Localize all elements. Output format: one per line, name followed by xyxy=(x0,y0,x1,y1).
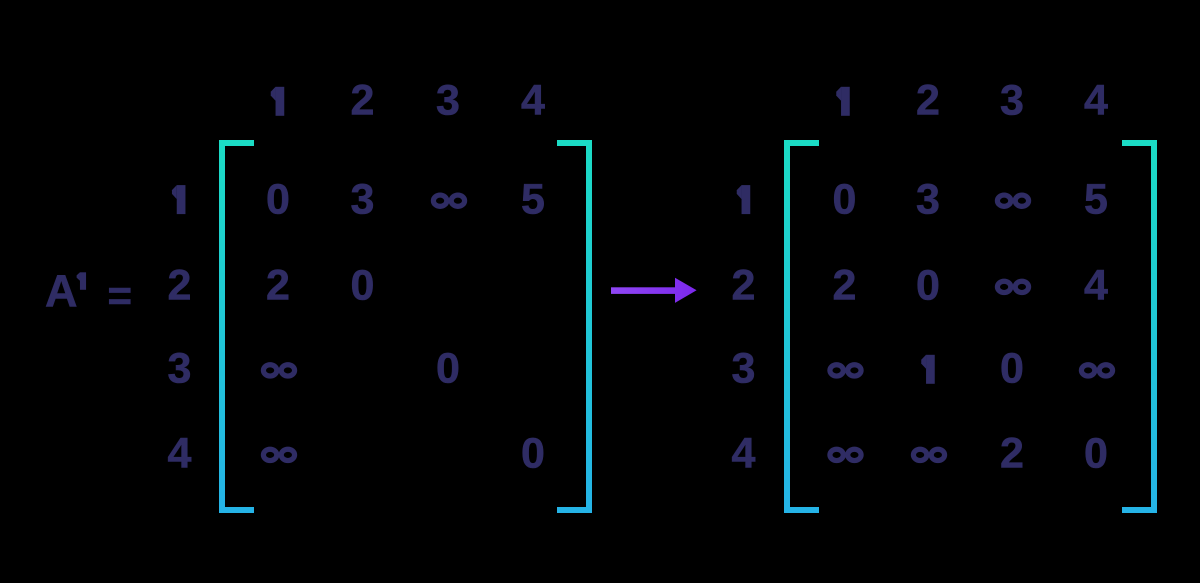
right matrix cell r4c1 value infinity xyxy=(830,449,861,460)
left matrix column header 2 value 2 xyxy=(351,80,375,123)
right matrix cell r4c4 value 0 xyxy=(1084,432,1108,475)
left matrix row label 3 value 3 xyxy=(168,348,192,391)
left matrix cell r1c4 value 5 xyxy=(521,178,545,221)
right matrix column header 3 value 3 xyxy=(1000,80,1024,123)
left matrix right bracket xyxy=(557,143,589,510)
left matrix column header 3 value 3 xyxy=(436,80,460,123)
left matrix cell r4c1 value infinity xyxy=(263,449,294,460)
right matrix row label 1 xyxy=(737,185,751,214)
right matrix cell r1c3 value infinity xyxy=(997,195,1028,206)
right matrix cell r2c3 value infinity xyxy=(997,281,1028,292)
right matrix cell r3c3 value 0 xyxy=(1000,348,1024,391)
left matrix cell r3c1 value infinity xyxy=(263,365,294,376)
right matrix row label 4 value 4 xyxy=(732,432,756,475)
left matrix cell r2c2 value 0 xyxy=(351,264,375,307)
right matrix cell r3c1 value infinity xyxy=(830,365,861,376)
right matrix cell r4c3 value 2 xyxy=(1000,432,1024,475)
right matrix row label 2 value 2 xyxy=(732,264,756,307)
right matrix cell r3c2 value 1 xyxy=(921,355,935,384)
right matrix row label 3 value 3 xyxy=(732,348,756,391)
left matrix row label 1 xyxy=(172,185,186,214)
left matrix cell r1c2 value 3 xyxy=(351,178,375,221)
left matrix column header 4 value 4 xyxy=(521,80,545,123)
left matrix column header 1 xyxy=(271,87,285,116)
left matrix cell r1c1 value 0 xyxy=(266,178,290,221)
left matrix cell r1c3 value infinity xyxy=(433,195,464,206)
label A of A^1 xyxy=(45,269,78,314)
right matrix left bracket xyxy=(787,143,819,510)
left matrix cell r2c1 value 2 xyxy=(266,264,290,307)
left matrix left bracket xyxy=(222,143,254,510)
right matrix cell r2c4 value 4 xyxy=(1084,264,1108,307)
right matrix cell r2c2 value 0 xyxy=(916,264,940,307)
right matrix cell r3c4 value infinity xyxy=(1081,365,1112,376)
right matrix cell r1c4 value 5 xyxy=(1084,178,1108,221)
left matrix row label 2 value 2 xyxy=(168,264,192,307)
right matrix cell r1c2 value 3 xyxy=(916,178,940,221)
left matrix row label 4 value 4 xyxy=(168,432,192,475)
right matrix cell r4c2 value infinity xyxy=(913,449,944,460)
left matrix cell r4c4 value 0 xyxy=(521,432,545,475)
right matrix right bracket xyxy=(1122,143,1154,510)
right matrix cell r2c1 value 2 xyxy=(833,264,857,307)
right matrix column header 4 value 4 xyxy=(1084,80,1108,123)
arrow between matrices xyxy=(611,278,697,303)
right matrix cell r1c1 value 0 xyxy=(833,178,857,221)
right matrix column header 2 value 2 xyxy=(916,80,940,123)
right matrix column header 1 xyxy=(836,87,850,116)
label A superscript 1 (custom glyph) xyxy=(77,272,86,289)
left matrix cell r3c3 value 0 xyxy=(436,348,460,391)
label equals sign xyxy=(108,275,133,317)
